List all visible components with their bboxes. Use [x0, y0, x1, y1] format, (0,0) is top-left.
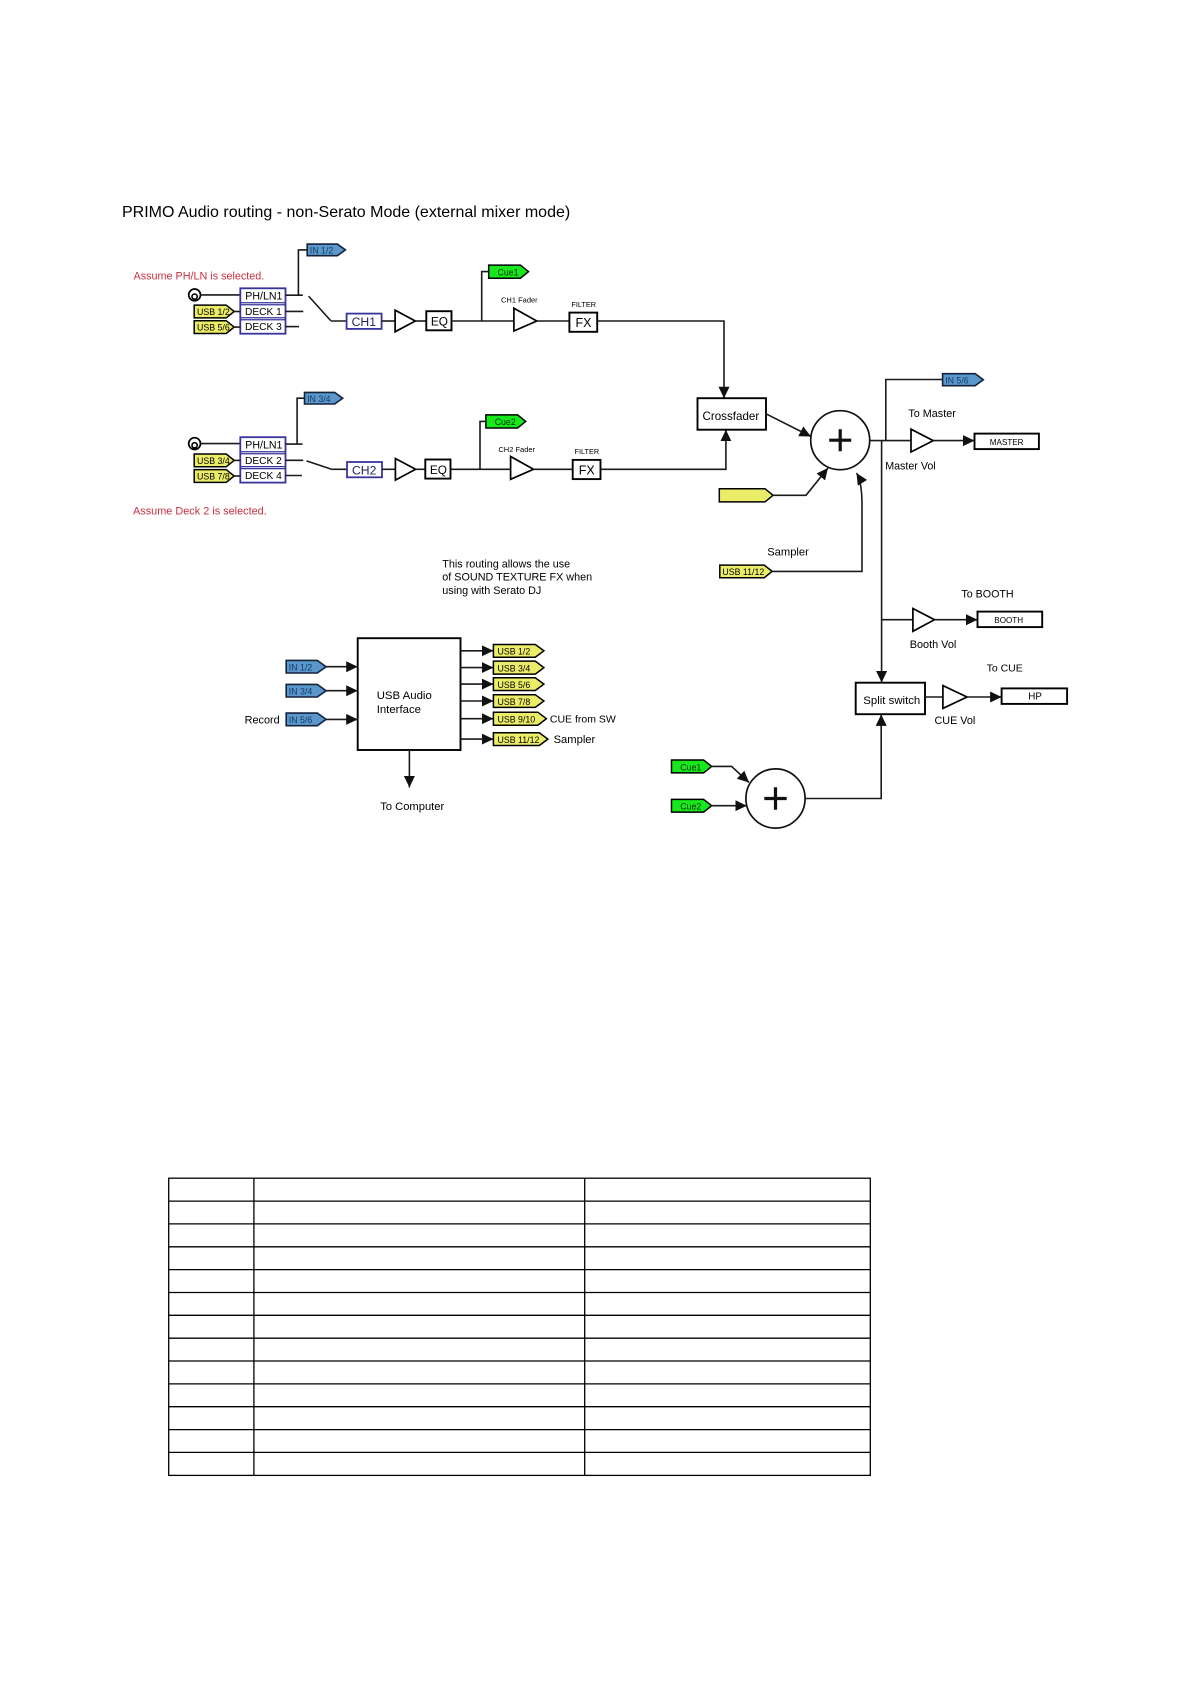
tag USB 3/4 — [194, 454, 240, 467]
block BOOTH — [978, 612, 1043, 628]
block Crossfader — [698, 398, 767, 430]
tag IN 3/4 input — [286, 684, 326, 697]
wire cue amp to HP — [967, 696, 1002, 698]
amp CH2 — [395, 459, 415, 481]
wire fader to FX CH1 — [537, 320, 570, 322]
wire CH1 to amp — [382, 320, 396, 322]
svg-text:Cue2: Cue2 — [680, 802, 701, 812]
svg-text:Cue1: Cue1 — [680, 762, 701, 772]
svg-text:HP: HP — [1028, 692, 1042, 703]
label Sampler out — [554, 734, 596, 746]
main bus to split switch — [881, 441, 883, 683]
block FX CH2 — [573, 460, 601, 479]
svg-text:Cue2: Cue2 — [495, 417, 516, 427]
tag USB 7/8 — [194, 470, 240, 483]
svg-text:IN 1/2: IN 1/2 — [289, 662, 313, 672]
svg-text:Master Vol: Master Vol — [885, 461, 936, 473]
svg-text:Split switch: Split switch — [863, 695, 920, 707]
wire interface to USB 11/12 — [461, 738, 494, 740]
svg-text:USB 1/2: USB 1/2 — [498, 647, 531, 657]
wire EQ to fader CH1 — [452, 320, 514, 322]
cue tap CH1 — [482, 272, 489, 321]
svg-text:DECK 3: DECK 3 — [245, 322, 282, 333]
svg-text:USB 7/8: USB 7/8 — [498, 697, 531, 707]
wire master amp to MASTER — [933, 440, 974, 442]
input selector CH1 — [240, 288, 285, 333]
wire cue sum to split switch — [805, 714, 881, 798]
tag USB 11/12 sampler — [720, 565, 772, 578]
wire interface to computer — [408, 750, 410, 788]
wire interface to USB 5/6 — [461, 683, 494, 685]
label To BOOTH — [961, 588, 1013, 600]
svg-text:Sampler: Sampler — [554, 734, 596, 746]
label CUE from SW — [550, 713, 616, 725]
block CH1 — [347, 314, 382, 329]
cue tap CH2 — [480, 421, 486, 469]
block FX CH1 — [569, 313, 597, 332]
wire fader to FX CH2 — [534, 468, 573, 470]
tag USB 3/4 out — [493, 661, 544, 674]
svg-text:Assume Deck 2 is selected.: Assume Deck 2 is selected. — [133, 505, 267, 517]
booth branch wire — [882, 619, 913, 621]
tag IN 1/2 input — [286, 660, 326, 673]
svg-text:USB 5/6: USB 5/6 — [498, 680, 531, 690]
wire CH2 to amp — [382, 468, 395, 470]
svg-text:Booth Vol: Booth Vol — [910, 639, 957, 651]
label To CUE — [987, 663, 1023, 675]
label CUE Vol — [935, 715, 976, 727]
amp Master Vol — [911, 429, 933, 452]
tag USB 5/6 out — [493, 678, 544, 691]
svg-text:Interface: Interface — [377, 704, 421, 716]
tag USB 11/12 out — [493, 733, 548, 746]
wire FX CH1 to crossfader — [597, 321, 724, 398]
label Master Vol — [885, 461, 936, 473]
tag USB 1/2 out — [493, 645, 544, 658]
svg-text:This routing allows the use: This routing allows the use — [442, 558, 570, 570]
wire split switch to cue amp — [925, 696, 943, 698]
svg-text:DECK 1: DECK 1 — [245, 307, 282, 318]
tag IN 5/6 input — [286, 713, 326, 726]
record tap to IN 5/6 — [886, 380, 943, 441]
tag IN 5/6 record master — [943, 374, 984, 386]
svg-text:of SOUND TEXTURE FX when: of SOUND TEXTURE FX when — [442, 572, 592, 584]
svg-text:USB 11/12: USB 11/12 — [722, 567, 764, 577]
block HP — [1002, 688, 1068, 704]
svg-text:DECK 4: DECK 4 — [245, 471, 282, 482]
amp CH1 — [395, 310, 415, 332]
label Sampler — [767, 547, 809, 559]
wire IN 3/4 to interface — [326, 690, 358, 692]
svg-text:DECK 2: DECK 2 — [245, 456, 282, 467]
svg-text:FILTER: FILTER — [575, 447, 600, 456]
wire interface to USB 1/2 — [461, 650, 494, 652]
summing node master — [811, 411, 870, 470]
svg-text:Sampler: Sampler — [767, 547, 809, 559]
wire phono to selector CH2 — [201, 443, 240, 445]
wire interface to USB 9/10 — [461, 718, 494, 720]
wire interface to USB 7/8 — [461, 700, 494, 702]
svg-text:FX: FX — [579, 463, 596, 477]
wire crossfader to master sum — [766, 414, 811, 437]
svg-text:IN 3/4: IN 3/4 — [289, 686, 313, 696]
wire IN 5/6 to interface — [326, 718, 358, 720]
svg-text:CH2: CH2 — [352, 463, 377, 477]
svg-text:CH1 Fader: CH1 Fader — [501, 296, 538, 305]
svg-text:using with Serato DJ: using with Serato DJ — [442, 585, 541, 597]
block USB Audio Interface — [358, 638, 461, 750]
svg-text:IN 3/4: IN 3/4 — [307, 394, 331, 404]
svg-text:CH1: CH1 — [352, 315, 377, 329]
contact stub DECK 3 — [286, 326, 300, 328]
wire amp to EQ — [415, 320, 426, 322]
svg-text:CUE Vol: CUE Vol — [935, 715, 976, 727]
svg-text:USB 9/10: USB 9/10 — [498, 715, 536, 725]
wire booth amp to BOOTH — [935, 619, 978, 621]
routing table — [169, 1178, 871, 1475]
wire blank tag to master sum — [773, 468, 828, 495]
wire IN 1/2 to interface — [326, 666, 358, 668]
tag USB 9/10 out — [493, 712, 546, 725]
label FILTER CH2 — [575, 447, 600, 456]
label Booth Vol — [910, 639, 957, 651]
label CH1 Fader — [501, 296, 538, 305]
svg-text:USB 7/8: USB 7/8 — [197, 472, 230, 482]
contact stub DECK 4 — [286, 475, 302, 477]
tag Cue1 bottom — [672, 760, 712, 773]
input selector CH2 — [240, 437, 285, 482]
svg-text:USB 3/4: USB 3/4 — [498, 663, 531, 673]
contact stub DECK 2 — [286, 459, 304, 461]
svg-text:CH2 Fader: CH2 Fader — [498, 445, 535, 454]
svg-text:EQ: EQ — [430, 463, 447, 477]
svg-text:Crossfader: Crossfader — [703, 410, 760, 423]
note: Assume Deck 2 is selected — [133, 505, 267, 517]
svg-text:FILTER: FILTER — [571, 300, 596, 309]
label FILTER CH1 — [571, 300, 596, 309]
wire PH/LN1 to IN 1/2 tap — [286, 250, 308, 295]
wire master sum output — [870, 440, 911, 442]
title — [122, 204, 570, 221]
fader amp CH1 — [514, 308, 537, 331]
svg-text:To Computer: To Computer — [380, 801, 444, 813]
wire phono to selector CH1 — [201, 294, 240, 296]
note routing text — [442, 558, 592, 597]
phono source icon CH1 — [189, 289, 201, 301]
label To Master — [908, 408, 956, 420]
contact stub DECK 1 — [286, 310, 304, 312]
summing node cue — [746, 769, 805, 828]
svg-text:USB 3/4: USB 3/4 — [197, 456, 230, 466]
svg-text:CUE from SW: CUE from SW — [550, 713, 616, 725]
block MASTER — [975, 434, 1039, 450]
wire Cue1 to cue sum — [712, 766, 749, 782]
svg-text:PH/LN1: PH/LN1 — [245, 291, 282, 303]
tag USB 7/8 out — [493, 695, 544, 708]
fader amp CH2 — [511, 457, 534, 480]
label To Computer — [380, 801, 444, 813]
svg-text:Record: Record — [245, 715, 280, 727]
svg-text:Assume PH/LN is selected.: Assume PH/LN is selected. — [134, 271, 265, 283]
svg-text:USB 1/2: USB 1/2 — [197, 307, 230, 317]
block Split switch — [856, 683, 925, 715]
svg-text:Cue1: Cue1 — [498, 267, 519, 277]
tag IN 1/2 — [307, 244, 345, 256]
wire amp to EQ CH2 — [416, 468, 426, 470]
switch arm CH1 — [309, 296, 331, 321]
tag Cue1 — [489, 265, 529, 278]
block CH2 — [347, 462, 382, 477]
svg-text:PRIMO Audio routing - non-Sera: PRIMO Audio routing - non-Serato Mode (e… — [122, 204, 570, 221]
tag USB 5/6 — [194, 321, 240, 334]
wire EQ to fader CH2 — [451, 468, 511, 470]
tag crossfader assign blank — [719, 489, 773, 502]
switch arm CH2 — [307, 461, 332, 469]
tag Cue2 bottom — [672, 799, 712, 812]
wire Cue2 to cue sum — [712, 805, 747, 807]
svg-text:MASTER: MASTER — [990, 438, 1024, 447]
svg-text:USB Audio: USB Audio — [377, 690, 432, 702]
label CH2 Fader — [498, 445, 535, 454]
svg-text:USB 11/12: USB 11/12 — [498, 735, 540, 745]
block EQ CH2 — [425, 460, 450, 479]
tag USB 1/2 — [194, 305, 240, 318]
amp CUE Vol — [943, 686, 967, 709]
wire interface to USB 3/4 — [461, 667, 494, 669]
note: Assume PH/LN is selected — [134, 271, 265, 283]
label Record — [245, 715, 280, 727]
svg-text:To BOOTH: To BOOTH — [961, 588, 1013, 600]
svg-text:To Master: To Master — [908, 408, 956, 420]
amp Booth Vol — [913, 609, 935, 632]
wire to CH2 box — [332, 468, 348, 470]
phono source icon CH2 — [189, 438, 201, 450]
svg-text:FX: FX — [576, 316, 593, 330]
svg-text:USB 5/6: USB 5/6 — [197, 323, 230, 333]
svg-text:To CUE: To CUE — [987, 663, 1023, 675]
svg-text:BOOTH: BOOTH — [994, 616, 1023, 625]
svg-text:IN 5/6: IN 5/6 — [945, 375, 969, 385]
wire FX CH2 to crossfader — [601, 430, 726, 470]
svg-text:IN 1/2: IN 1/2 — [310, 246, 334, 256]
wire PH/LN1 to IN 3/4 tap CH2 — [286, 398, 305, 444]
wire to CH1 box — [331, 320, 347, 322]
block EQ CH1 — [426, 311, 451, 330]
wire sampler to master sum — [772, 473, 862, 571]
tag Cue2 — [486, 415, 526, 428]
svg-text:IN 5/6: IN 5/6 — [289, 715, 313, 725]
svg-text:PH/LN1: PH/LN1 — [245, 439, 282, 451]
svg-text:EQ: EQ — [431, 315, 448, 329]
tag IN 3/4 — [305, 392, 343, 404]
